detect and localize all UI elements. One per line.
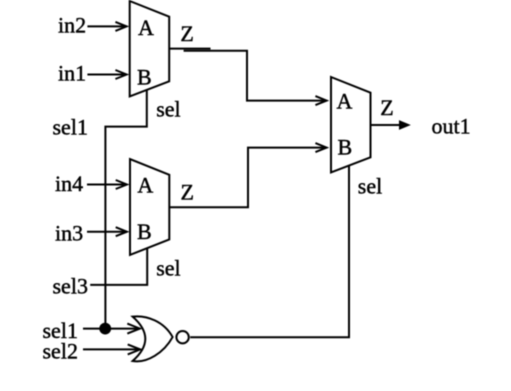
wire NOR output up to U3 sel pin <box>190 166 349 338</box>
svg-text:A: A <box>337 89 353 114</box>
wire in2 with arrowhead into U1.A <box>87 25 126 27</box>
svg-text:in1: in1 <box>58 61 86 86</box>
wire in1 with arrowhead into U1.B <box>87 74 126 76</box>
wire U1.Z to U3.A <box>184 51 327 101</box>
svg-text:A: A <box>137 172 153 197</box>
svg-text:in3: in3 <box>55 221 83 246</box>
mux U2 (middle 2:1 mux) <box>130 159 169 255</box>
wire U1 sel pin down-left-down to sel1 junction <box>105 90 146 329</box>
svg-text:sel: sel <box>156 255 180 280</box>
svg-text:sel: sel <box>358 173 382 198</box>
mux U1 (top 2:1 mux) <box>130 1 170 96</box>
svg-text:out1: out1 <box>432 114 471 139</box>
svg-text:Z: Z <box>380 95 393 120</box>
filled arrowhead at out1 <box>399 120 411 130</box>
wire U2 sel pin to sel3 net <box>90 248 147 285</box>
wire sel1 into NOR input with arrowhead <box>83 328 140 330</box>
arrowhead into U3.A <box>315 96 326 105</box>
svg-text:in2: in2 <box>58 13 86 38</box>
svg-text:Z: Z <box>181 179 194 204</box>
junction dot sel1 <box>99 323 111 335</box>
wire U3.Z output to out1 <box>371 124 401 126</box>
wire U1 Z output stub <box>169 48 210 50</box>
svg-text:sel1: sel1 <box>53 114 88 139</box>
svg-text:in4: in4 <box>55 171 83 196</box>
arrowhead into U3.B <box>315 143 326 152</box>
svg-text:Z: Z <box>180 21 193 46</box>
wire in3 with arrowhead into U2.B <box>87 231 127 233</box>
wire in4 with arrowhead into U2.A <box>87 184 127 186</box>
wire U2.Z to U3.B <box>169 148 326 208</box>
svg-text:sel: sel <box>156 97 180 122</box>
NOR gate G1 body <box>133 316 173 361</box>
svg-text:A: A <box>138 15 154 40</box>
svg-text:sel3: sel3 <box>53 274 88 299</box>
svg-text:B: B <box>137 64 152 89</box>
svg-text:B: B <box>338 135 353 160</box>
mux U3 (output 2:1 mux) <box>331 77 371 172</box>
svg-text:B: B <box>137 219 152 244</box>
svg-text:sel2: sel2 <box>43 339 78 364</box>
NOR gate G1 output bubble <box>176 331 188 343</box>
wire sel2 into NOR input with arrowhead <box>83 348 140 350</box>
